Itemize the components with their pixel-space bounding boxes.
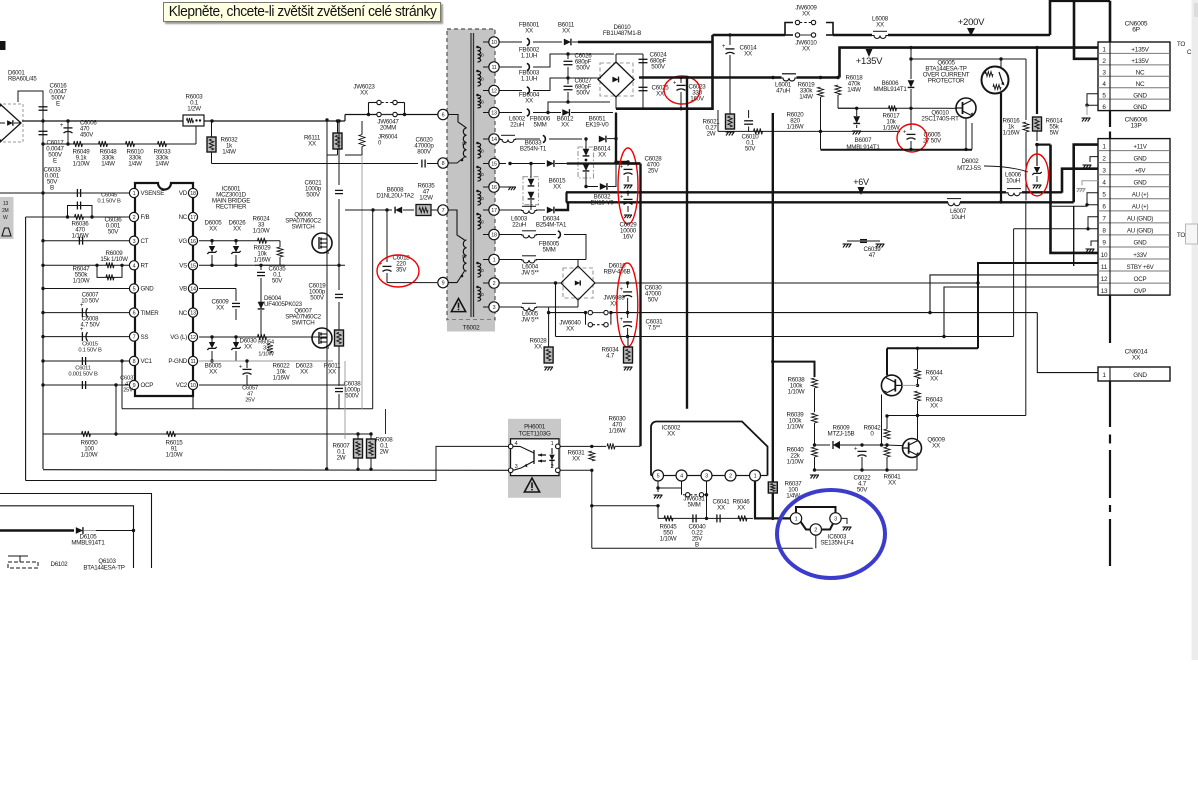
svg-text:B254M-TA1: B254M-TA1 [536, 222, 567, 229]
resistor R6032 [207, 137, 216, 152]
branch to R6038 [771, 360, 774, 363]
IC6001 pin 5 GND [129, 284, 138, 293]
wire OCP to y408 [121, 361, 123, 409]
svg-text:OCP: OCP [1134, 276, 1147, 283]
resistor R6044 [917, 348, 919, 369]
T6002 pin 1 [489, 254, 499, 264]
row y518 [658, 517, 753, 519]
svg-text:SWITCH: SWITCH [292, 320, 315, 327]
svg-text:22uH: 22uH [512, 222, 526, 229]
svg-text:JW 5**: JW 5** [521, 317, 539, 324]
svg-text:25V: 25V [648, 168, 659, 175]
svg-text:PH6001: PH6001 [524, 424, 546, 431]
svg-text:XX: XX [216, 305, 224, 312]
T6002 pin 17 [489, 205, 499, 215]
svg-text:3: 3 [705, 474, 708, 480]
svg-text:1/10W: 1/10W [81, 452, 98, 459]
cap C6028 red circled [616, 161, 628, 163]
pin8 AU riser [1013, 229, 1015, 337]
svg-text:18: 18 [190, 191, 196, 197]
svg-text:TO: TO [1177, 232, 1186, 239]
svg-text:MTZJ-15B: MTZJ-15B [828, 431, 855, 438]
transistor Q6010 [956, 98, 976, 118]
svg-text:+6V: +6V [853, 177, 869, 187]
IC6001 pin 13 NC [188, 308, 197, 317]
scrollbar strip right edge [1192, 0, 1198, 660]
IC6003 pin1 [790, 513, 801, 524]
diode B6006 [909, 46, 912, 49]
resistor JR6004 [359, 135, 365, 147]
svg-text:2: 2 [814, 528, 817, 534]
bridge rectifier D6001 [0, 104, 23, 142]
svg-text:7: 7 [133, 335, 136, 341]
svg-text:XX: XX [233, 226, 241, 233]
svg-text:2: 2 [729, 474, 732, 480]
SS row C6008 [43, 336, 129, 338]
svg-text:10: 10 [491, 40, 497, 46]
bridge rectifier D6010 sub [600, 63, 633, 96]
row pin1 [499, 259, 522, 261]
svg-text:25V: 25V [245, 398, 255, 404]
svg-text:1/16W: 1/16W [609, 428, 626, 435]
svg-text:XX: XX [328, 369, 336, 376]
GND row [43, 288, 129, 290]
TIMER row C6007 [43, 312, 129, 314]
T6002 pin 10 [489, 37, 499, 47]
wire row y144 R6049 R6048 R6010 R6033 [41, 142, 44, 145]
svg-text:500V: 500V [310, 295, 325, 302]
row y312 to right [611, 312, 1037, 314]
resistor R6019 [818, 87, 824, 97]
svg-text:1/10W: 1/10W [73, 161, 90, 168]
svg-text:RBA60L/45: RBA60L/45 [8, 77, 37, 83]
svg-text:5: 5 [133, 287, 136, 293]
cap C6039 [847, 240, 880, 242]
svg-text:XX: XX [744, 51, 752, 58]
svg-text:XX: XX [572, 456, 580, 463]
row y470 [815, 469, 918, 471]
VC2 row bottom [199, 384, 230, 386]
svg-text:VC2: VC2 [176, 382, 188, 389]
PH6001 warning triangle [524, 478, 539, 492]
svg-text:1/4W: 1/4W [128, 161, 142, 168]
svg-text:8: 8 [442, 161, 445, 167]
row pin12 FB6003 [499, 90, 522, 92]
svg-text:XX: XX [802, 11, 810, 18]
svg-text:2: 2 [133, 215, 136, 221]
svg-text:VSENSE: VSENSE [141, 190, 165, 197]
svg-text:1/4W: 1/4W [155, 161, 169, 168]
svg-text:XX: XX [888, 480, 896, 487]
svg-text:12: 12 [1101, 276, 1108, 283]
VB row [199, 288, 236, 290]
jumper JW6009 JW6010 [785, 23, 793, 36]
svg-text:STBY +6V: STBY +6V [1127, 264, 1155, 271]
svg-text:+200V: +200V [958, 17, 985, 28]
svg-text:500V: 500V [345, 393, 360, 400]
row pin17 L6003 D6034 [499, 209, 522, 211]
svg-text:8: 8 [133, 359, 136, 365]
resistor R6034 [627, 337, 629, 348]
svg-text:XX: XX [360, 90, 368, 97]
transistor Q6009 [903, 439, 922, 458]
sub box lower left [0, 494, 152, 569]
T6002 pin 11 [489, 62, 499, 72]
IC6001 pin 4 RT [129, 261, 138, 270]
svg-text:16: 16 [491, 185, 497, 191]
svg-text:XX: XX [209, 369, 217, 376]
rail +6V [566, 191, 1006, 193]
IC6001 pin 3 CT [129, 236, 138, 245]
svg-text:AU (GND): AU (GND) [1127, 228, 1153, 235]
primary windings [463, 128, 466, 157]
capacitor C6016 pair [18, 91, 43, 121]
IC6002 pin5 ground [657, 481, 659, 488]
svg-text:1.1UH: 1.1UH [521, 76, 537, 83]
svg-text:MTZJ-5S: MTZJ-5S [957, 165, 981, 172]
svg-text:W: W [3, 215, 8, 221]
svg-text:VB: VB [179, 286, 187, 293]
diode box B6014 [578, 147, 594, 178]
svg-text:5W: 5W [1050, 130, 1059, 137]
blue ellipse [777, 490, 885, 578]
cap C6038 [335, 387, 343, 389]
transistor Q6007 mosfet [312, 328, 332, 348]
OCP row C6011 [43, 384, 129, 386]
svg-text:GND: GND [1134, 180, 1148, 187]
svg-text:1.1UH: 1.1UH [521, 53, 537, 60]
svg-text:0.1 50V B: 0.1 50V B [78, 348, 102, 354]
svg-text:13: 13 [491, 111, 497, 117]
svg-text:XX: XX [209, 226, 217, 233]
cap C6027 [564, 85, 573, 87]
T6002 pin 16 [489, 182, 499, 192]
transformer T6002 body [447, 29, 495, 320]
svg-text:SS: SS [141, 334, 149, 341]
svg-text:500V: 500V [576, 65, 591, 72]
svg-text:16: 16 [190, 239, 196, 245]
svg-text:+11V: +11V [1133, 143, 1147, 150]
VG(L) row [199, 336, 327, 338]
svg-text:1/2W: 1/2W [187, 106, 201, 113]
cap C6035 [257, 271, 265, 273]
svg-text:15: 15 [190, 263, 196, 269]
IC6003 pin2 [810, 524, 821, 535]
svg-text:D1NL20U-TA2: D1NL20U-TA2 [376, 193, 414, 200]
IC6003 circles [773, 517, 791, 519]
svg-text:EK19-V0: EK19-V0 [590, 200, 614, 207]
inductor L6001 on +B rail [771, 76, 774, 79]
svg-text:2SC1740S-RT: 2SC1740S-RT [921, 116, 959, 123]
IC6001 pin 14 VB [188, 284, 197, 293]
resistor R6018 [836, 76, 839, 79]
svg-text:XX: XX [598, 152, 606, 159]
svg-text:17: 17 [190, 215, 196, 221]
svg-text:XX: XX [717, 505, 725, 512]
svg-text:13: 13 [1101, 288, 1108, 295]
CN6006 pin9 gnd bracket [1091, 241, 1098, 246]
svg-text:XX: XX [308, 141, 316, 148]
RT row R6009 R6047 [43, 264, 129, 266]
bridge output row y283 [595, 282, 978, 284]
IC6002 pin1 stub thick [755, 481, 773, 518]
svg-text:AU (+): AU (+) [1132, 192, 1149, 199]
IC6001 pin 15 VS [188, 261, 197, 270]
svg-text:XX: XX [534, 344, 542, 351]
diode D6105 row [0, 529, 74, 531]
svg-text:5MM: 5MM [534, 122, 547, 129]
P-GND row [199, 360, 327, 362]
rows y265 y361 left block [255, 264, 345, 266]
svg-text:3: 3 [834, 517, 837, 523]
svg-text:2W: 2W [337, 455, 346, 462]
resistor R6016 [1025, 59, 1027, 120]
svg-text:E: E [56, 101, 60, 108]
svg-text:VC1: VC1 [141, 358, 153, 365]
cap C6030 red circled [627, 283, 629, 288]
svg-text:6: 6 [442, 113, 445, 119]
svg-text:1/16W: 1/16W [72, 233, 89, 240]
bus x772 [772, 113, 774, 482]
T6002 pin 18 [489, 229, 499, 239]
resistor R6024 [258, 238, 267, 244]
resistor R6035 box [416, 205, 431, 216]
svg-text:XX: XX [525, 98, 533, 105]
resistor R6041 [884, 447, 890, 457]
svg-text:2M: 2M [2, 208, 9, 214]
IC6001 pin 11 P-GND [188, 356, 197, 365]
svg-text:1: 1 [795, 517, 798, 523]
svg-text:800V: 800V [417, 149, 432, 156]
IC6001 pin 16 VG [188, 236, 197, 245]
VC1 row C6015 [43, 360, 129, 362]
svg-text:VG (L): VG (L) [170, 334, 187, 341]
svg-text:1: 1 [551, 441, 554, 447]
svg-text:+6V: +6V [1135, 167, 1147, 174]
svg-text:XX: XX [553, 184, 561, 191]
svg-text:16V: 16V [623, 234, 634, 241]
cap C6014 [728, 33, 731, 36]
rail +11V y202 [566, 201, 948, 203]
svg-text:NC: NC [179, 310, 188, 317]
CN6006 pin11 STBY wire [978, 263, 1098, 348]
svg-text:2W: 2W [707, 131, 716, 138]
svg-text:B6007: B6007 [855, 137, 872, 144]
zener B6005b [210, 335, 213, 338]
svg-text:14: 14 [190, 287, 196, 293]
svg-text:35V: 35V [396, 267, 407, 274]
svg-text:22uH: 22uH [510, 122, 524, 129]
svg-text:13: 13 [3, 201, 9, 207]
svg-text:1: 1 [754, 474, 757, 480]
svg-text:50V: 50V [108, 229, 119, 236]
wire main to transformer [212, 120, 345, 122]
transformer warning triangle [451, 299, 465, 312]
svg-text:500V: 500V [651, 64, 666, 71]
svg-text:10: 10 [1101, 252, 1108, 259]
svg-text:E: E [53, 158, 57, 165]
svg-text:17: 17 [491, 208, 497, 214]
IC6001 pin 10 VC2 [188, 380, 197, 389]
IC bottom wire loop [192, 396, 194, 409]
svg-text:XX: XX [561, 122, 569, 129]
svg-text:BTA144ESA-TP: BTA144ESA-TP [83, 565, 124, 572]
svg-text:7.5**: 7.5** [648, 325, 661, 332]
svg-text:XX: XX [525, 28, 533, 35]
loop left of bridge [555, 283, 557, 337]
wire riser x339 with C6021 C6019 [337, 119, 340, 122]
IC6001 pin 18 VD [188, 188, 197, 197]
svg-text:500V: 500V [576, 90, 591, 97]
svg-text:450V: 450V [80, 133, 93, 139]
svg-text:+135V: +135V [856, 56, 883, 67]
IC6002 pin 4 [676, 470, 687, 481]
resistor R6111 [333, 133, 342, 149]
wire VSENSE from left edge [0, 192, 129, 194]
transistor Q6006 mosfet [312, 233, 332, 253]
svg-text:NC: NC [179, 214, 188, 221]
IC6001 pin 2 F/B [129, 212, 138, 221]
T6002 pin 7 [438, 205, 448, 215]
svg-text:1: 1 [133, 191, 136, 197]
svg-text:500V: 500V [306, 192, 321, 199]
svg-text:47: 47 [869, 252, 876, 259]
IC6001 pin 12 VG (L) [188, 332, 197, 341]
diode box B6015 [523, 177, 539, 205]
svg-text:6: 6 [133, 311, 136, 317]
svg-text:OCP: OCP [141, 382, 154, 389]
svg-text:GND: GND [1133, 104, 1147, 111]
row y186 diode B6032 [584, 185, 587, 188]
svg-text:GND: GND [141, 286, 155, 293]
svg-text:1/4W: 1/4W [799, 94, 813, 101]
row pin15 B6033 [499, 163, 506, 165]
svg-text:VS: VS [179, 263, 187, 270]
svg-text:9: 9 [442, 281, 445, 287]
svg-text:RT: RT [141, 263, 149, 270]
T6002 pin 2 [489, 278, 499, 288]
svg-text:50V: 50V [857, 487, 868, 494]
svg-text:1: 1 [493, 258, 496, 264]
cap C6005 red circled [910, 108, 912, 130]
svg-text:D6102: D6102 [51, 561, 69, 568]
svg-text:5MM: 5MM [688, 502, 701, 509]
svg-text:AU (+): AU (+) [1132, 204, 1149, 211]
svg-text:MMBL914T1: MMBL914T1 [873, 86, 907, 93]
svg-text:10: 10 [190, 383, 196, 389]
row pin16 gnd [499, 186, 508, 188]
svg-text:4: 4 [680, 474, 683, 480]
CN6006 bottom line [1109, 295, 1111, 343]
svg-text:GND: GND [1134, 240, 1148, 247]
IC6001 pin 7 SS [129, 332, 138, 341]
svg-text:3: 3 [493, 305, 496, 311]
thick +B rails around bridge [639, 78, 660, 81]
svg-text:10uH: 10uH [951, 214, 965, 221]
row y469 long [43, 469, 511, 472]
T6002 pin 9 [438, 277, 448, 287]
svg-text:6P: 6P [1132, 27, 1140, 34]
riser x1026 [1025, 202, 1027, 416]
svg-text:25V: 25V [123, 388, 133, 394]
svg-text:10uH: 10uH [1006, 178, 1020, 185]
resistor R6014 box [1036, 48, 1038, 114]
IC6003 pin3 [830, 513, 841, 524]
svg-text:XX: XX [656, 91, 664, 98]
svg-text:GND: GND [1134, 155, 1148, 162]
diode B6007 [856, 108, 858, 116]
T6002 pin 12 [489, 85, 499, 95]
IC6001 pin 8 VC1 [129, 356, 138, 365]
svg-text:SE135N-LF4: SE135N-LF4 [820, 540, 854, 547]
resistor R6021 box [726, 114, 735, 129]
IC6002 pin 2 [725, 470, 736, 481]
svg-text:13: 13 [190, 311, 196, 317]
diode B6008 D1NL20U-TA2 [345, 209, 392, 211]
resistor R6043 [915, 391, 921, 401]
svg-text:15: 15 [491, 162, 497, 168]
row y336 to right [556, 336, 1014, 338]
CN6006 pin12 OCP wire [930, 275, 1098, 313]
svg-text:P-GND: P-GND [168, 358, 187, 365]
row y434 R6050 R6015 [43, 433, 358, 435]
row pin3 L6005 [499, 306, 522, 308]
svg-text:XX: XX [244, 344, 252, 351]
svg-text:0.1 50V B: 0.1 50V B [97, 199, 121, 205]
svg-text:1/4W: 1/4W [847, 87, 861, 94]
IC IC6002 body [651, 422, 768, 476]
svg-text:0.001 50V B: 0.001 50V B [68, 372, 98, 378]
resistor R6042 [862, 444, 887, 446]
svg-text:MMBL914T1: MMBL914T1 [71, 540, 105, 547]
CN6006 pin13 OVP wire [944, 287, 1098, 337]
resistor R6054 [258, 334, 267, 340]
row y108 R6017 [838, 107, 947, 109]
IC6001 pin 17 NC [188, 212, 197, 221]
svg-text:5MM: 5MM [543, 247, 556, 254]
jumper JW6089 [549, 312, 586, 314]
svg-text:1/10W: 1/10W [788, 389, 805, 396]
svg-text:1/10W: 1/10W [660, 536, 677, 543]
svg-text:1/10W: 1/10W [258, 352, 274, 358]
svg-text:14: 14 [491, 137, 497, 143]
cap C6010 [748, 110, 750, 118]
svg-text:1/10W: 1/10W [253, 228, 270, 235]
VS row right [199, 264, 285, 266]
CN6006 pin7 pin8 AU bracket [1088, 217, 1098, 229]
row pin2 to bridge [499, 282, 561, 284]
svg-text:1/16W: 1/16W [273, 375, 290, 382]
CN6006 pin2 gnd bracket [1090, 157, 1098, 162]
bridge rectifier D6016 [563, 268, 593, 298]
svg-text:XX: XX [566, 326, 574, 333]
svg-text:50V: 50V [745, 146, 756, 153]
row pin11 FB6002 [499, 66, 522, 68]
cap C6022 [860, 443, 863, 446]
svg-text:1/16W: 1/16W [1003, 130, 1020, 137]
IC6001 pin 9 OCP [129, 380, 138, 389]
T6002 pin 15 [489, 158, 499, 168]
wire to CN6014 [1037, 313, 1098, 373]
resistor R6028 [548, 313, 550, 347]
svg-text:F/B: F/B [141, 214, 150, 221]
svg-text:C: C [1187, 49, 1192, 56]
IC IC6001 MCZ3001D body [135, 183, 193, 396]
svg-text:CT: CT [141, 238, 149, 245]
svg-text:1/4W: 1/4W [222, 149, 236, 156]
left bus x43 and x25.6 [42, 144, 44, 469]
svg-text:47uH: 47uH [776, 88, 790, 95]
